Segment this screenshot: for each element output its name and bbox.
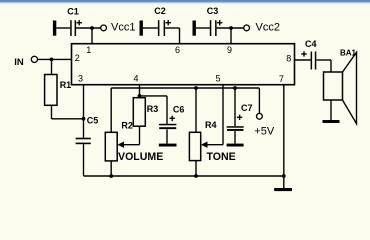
svg-text:C5: C5 <box>87 115 99 125</box>
svg-text:BA1: BA1 <box>340 49 357 58</box>
wire input <box>38 58 72 60</box>
svg-text:9: 9 <box>227 45 232 55</box>
wire pin4 <box>139 85 141 98</box>
capacitor C3 <box>193 20 244 36</box>
ground speaker <box>323 120 340 123</box>
svg-text:R1: R1 <box>60 80 72 90</box>
wire pin8 <box>295 59 311 61</box>
svg-text:4: 4 <box>134 73 139 83</box>
terminal IN <box>31 56 37 62</box>
resistor R3 <box>133 98 145 127</box>
svg-text:6: 6 <box>175 45 180 55</box>
capacitor C1 <box>53 20 101 36</box>
svg-text:Vcc1: Vcc1 <box>111 21 135 33</box>
potentiometer R2 VOLUME <box>105 132 117 161</box>
svg-text:TONE: TONE <box>207 151 236 163</box>
wire C4 to speaker <box>316 60 331 72</box>
node bus junction 2 <box>194 174 198 178</box>
wire R4 bottom <box>195 161 197 176</box>
svg-text:C6: C6 <box>173 104 185 114</box>
wire ground bus <box>84 175 284 177</box>
node bus junction 1 <box>109 174 113 178</box>
svg-text:VOLUME: VOLUME <box>118 151 163 163</box>
node R3 junction <box>138 94 142 98</box>
wire R3 to wiper <box>122 126 140 145</box>
svg-text:C2: C2 <box>154 6 166 16</box>
node Vcc2 junction <box>229 26 233 30</box>
svg-text:2: 2 <box>75 53 80 63</box>
wiper arrow R2 <box>117 142 124 148</box>
svg-text:R4: R4 <box>205 120 217 130</box>
svg-text:5: 5 <box>216 73 221 83</box>
wire +5V rail <box>111 88 259 132</box>
wire to C6 <box>140 96 168 124</box>
svg-text:3: 3 <box>78 74 83 84</box>
IC U1 body <box>72 44 295 85</box>
wire pin7 to ground <box>283 85 285 188</box>
node rail junction C7 <box>233 86 237 90</box>
svg-text:R3: R3 <box>147 104 159 114</box>
node input junction <box>50 58 54 62</box>
node rail junction R4 <box>194 86 198 90</box>
node Vcc1 junction <box>90 26 94 30</box>
potentiometer R4 TONE <box>189 132 200 160</box>
svg-text:R2: R2 <box>121 120 133 130</box>
wiper arrow R4 <box>201 142 208 148</box>
wire pin6 <box>179 28 181 44</box>
node C5 junction <box>82 117 86 121</box>
capacitor C5 <box>76 119 91 176</box>
terminal Vcc1 <box>101 25 107 31</box>
svg-text:C3: C3 <box>207 6 219 16</box>
capacitor C6 <box>159 116 177 144</box>
wire speaker to ground <box>330 100 332 120</box>
svg-text:C1: C1 <box>67 7 79 17</box>
svg-text:C4: C4 <box>305 39 317 49</box>
speaker BA1 <box>324 52 357 123</box>
node bus junction 3 <box>282 174 286 178</box>
ground C7 <box>227 144 244 147</box>
capacitor C2 <box>140 20 180 36</box>
svg-text:C7: C7 <box>241 103 253 113</box>
terminal +5V <box>257 113 263 119</box>
terminal Vcc2 <box>244 25 250 31</box>
wire R2 bottom <box>110 161 112 176</box>
svg-text:IN: IN <box>14 57 24 68</box>
svg-text:+5V: +5V <box>254 125 275 137</box>
wire pin9 <box>230 28 232 44</box>
ground C6 <box>159 144 177 147</box>
ground main <box>274 188 292 191</box>
capacitor C4 <box>301 51 316 69</box>
svg-text:1: 1 <box>86 45 91 55</box>
resistor R1 <box>51 59 53 74</box>
wire pin5 to wiper <box>206 85 224 145</box>
svg-text:7: 7 <box>279 74 284 84</box>
wire pin3 <box>83 85 85 119</box>
capacitor C7 <box>227 88 244 144</box>
wire R4 top <box>195 88 197 132</box>
svg-text:8: 8 <box>286 54 291 64</box>
wire pin1 <box>91 28 93 44</box>
svg-text:Vcc2: Vcc2 <box>256 21 280 33</box>
wire R1 to C5 node <box>51 105 53 119</box>
